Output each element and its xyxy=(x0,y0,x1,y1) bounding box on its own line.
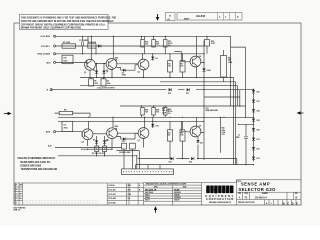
terminal B15 xyxy=(54,61,56,63)
svg-text:SELECTOR G3O: SELECTOR G3O xyxy=(238,187,276,192)
svg-text:680: 680 xyxy=(168,135,171,137)
svg-text:MFD: MFD xyxy=(236,137,240,139)
svg-text:D: D xyxy=(292,201,294,205)
diode D30 xyxy=(252,128,255,131)
svg-text:D6: D6 xyxy=(156,58,158,60)
wire bus 117.3 xyxy=(58,116,254,118)
svg-text:D10: D10 xyxy=(168,93,171,95)
rev table verticals xyxy=(107,183,138,205)
wire bus 106 xyxy=(120,105,246,107)
diode D26 xyxy=(252,90,255,93)
svg-text:TRANSISTORS ARE DEC2894-3B: TRANSISTORS ARE DEC2894-3B xyxy=(21,168,58,171)
wire +10V rail xyxy=(56,35,231,37)
diode D6 xyxy=(151,57,154,60)
conversion chart xyxy=(144,183,202,205)
border frame xyxy=(14,23,301,205)
notes text block xyxy=(18,157,58,171)
svg-text:RESISTORS ARE 1/4W; 5%: RESISTORS ARE 1/4W; 5% xyxy=(21,161,52,164)
svg-text:B15: B15 xyxy=(47,62,52,64)
svg-text:Y: Y xyxy=(169,14,171,18)
svg-text:1N645: 1N645 xyxy=(174,194,180,197)
wire local emitter bus bottom row xyxy=(81,148,112,150)
svg-text:D670: D670 xyxy=(145,200,150,202)
svg-text:D29: D29 xyxy=(257,120,260,122)
pc rev letters xyxy=(283,201,299,205)
svg-text:BRN-GRN-GRN: BRN-GRN-GRN xyxy=(206,110,219,112)
svg-text:D664: D664 xyxy=(207,69,211,72)
transistor Q4 xyxy=(190,56,201,67)
svg-text:DEC: DEC xyxy=(20,184,24,186)
svg-text:R17: R17 xyxy=(180,64,183,66)
svg-text:ECO-444: ECO-444 xyxy=(109,197,116,200)
svg-text:7500: 7500 xyxy=(63,60,67,62)
resistor R4 xyxy=(89,79,94,86)
svg-text:GND LUG(2): GND LUG(2) xyxy=(38,54,51,56)
resistor R10 xyxy=(141,40,145,48)
wire nested rail xyxy=(160,81,236,83)
diode D32 xyxy=(252,147,255,150)
wire Q8 base xyxy=(181,122,190,132)
svg-text:REV: REV xyxy=(295,193,298,195)
svg-text:10-2065 2-2065: 10-2065 2-2065 xyxy=(119,152,130,154)
svg-text:COPYRIGHT 1965 BY DIGITAL EQUI: COPYRIGHT 1965 BY DIGITAL EQUIPMENT CORP… xyxy=(21,23,106,26)
svg-text:D11: D11 xyxy=(186,93,189,95)
svg-text:COLLECTOR OUTPUT: COLLECTOR OUTPUT xyxy=(97,87,116,89)
svg-text:D8: D8 xyxy=(106,140,108,142)
capacitor C1 xyxy=(82,42,84,47)
diode D33 xyxy=(252,157,255,160)
diode D15 xyxy=(123,137,126,140)
transistor Q3 xyxy=(138,59,149,70)
verticals bottom area xyxy=(142,106,166,108)
svg-text:W12: W12 xyxy=(128,185,132,187)
transistor Q2 xyxy=(106,59,117,70)
resistor R8 xyxy=(59,111,72,114)
terminal -15V xyxy=(54,45,56,47)
svg-text:A: A xyxy=(266,202,268,205)
svg-text:R42: R42 xyxy=(222,127,225,130)
svg-text:R9 1500 C9 2200: R9 1500 C9 2200 xyxy=(92,153,105,155)
wire input E row xyxy=(51,89,253,91)
left column dividers xyxy=(16,183,23,205)
diode D29 xyxy=(252,119,255,122)
registration arrow left xyxy=(4,112,12,116)
resistor R11 xyxy=(152,40,156,48)
svg-text:2894: 2894 xyxy=(115,56,119,59)
svg-text:D30: D30 xyxy=(257,130,260,132)
svg-text:Q1: Q1 xyxy=(84,72,86,74)
notes box top-left xyxy=(20,15,117,30)
svg-text:R8: R8 xyxy=(64,110,66,112)
wire B15 input xyxy=(56,61,85,63)
wire verticals top area xyxy=(82,36,84,54)
svg-text:HG-845: HG-845 xyxy=(196,14,206,18)
capacitor C12 xyxy=(244,137,248,139)
wire base interconnect Q6-Q7 xyxy=(118,132,139,134)
svg-text:33: 33 xyxy=(16,198,18,200)
resistor R17 xyxy=(180,61,185,72)
diode D11 xyxy=(187,88,190,91)
wire 164.6 xyxy=(136,164,254,166)
resistor box C50 xyxy=(62,55,73,64)
svg-text:2.2K: 2.2K xyxy=(211,43,215,45)
resistor R44 xyxy=(122,143,127,149)
svg-text:E: E xyxy=(47,90,49,92)
svg-text:D27: D27 xyxy=(257,101,260,103)
svg-text:D6: D6 xyxy=(20,198,22,200)
svg-text:D31: D31 xyxy=(257,139,260,141)
svg-text:NUMBER: NUMBER xyxy=(262,193,268,195)
svg-text:1500: 1500 xyxy=(94,83,98,85)
transistor Q7 xyxy=(138,128,149,139)
svg-text:12: 12 xyxy=(238,135,240,137)
diode D31 xyxy=(252,138,255,141)
svg-text:1N270: 1N270 xyxy=(174,200,180,202)
svg-text:DEC2894-3B: DEC2894-3B xyxy=(145,188,157,191)
svg-text:DRAFT: DRAFT xyxy=(184,17,189,20)
svg-text:SIZE: SIZE xyxy=(238,193,241,195)
svg-text:7500: 7500 xyxy=(64,127,68,129)
svg-text:1: 1 xyxy=(271,203,273,205)
svg-text:SENSE AMP: SENSE AMP xyxy=(241,182,270,187)
digital logo xyxy=(206,186,235,204)
svg-text:B: B xyxy=(283,201,285,205)
diode D27 xyxy=(252,100,255,103)
diode D14 xyxy=(191,157,194,160)
svg-text:-3B: -3B xyxy=(115,60,118,62)
svg-text:2200: 2200 xyxy=(107,83,111,85)
svg-text:D5: D5 xyxy=(122,72,124,74)
resistor R9 xyxy=(95,146,99,152)
svg-text:D2: D2 xyxy=(93,70,95,72)
terminal +10V xyxy=(54,35,56,37)
svg-text:D1 D664: D1 D664 xyxy=(89,41,97,44)
wire second lower rail xyxy=(80,85,238,87)
svg-text:73: 73 xyxy=(245,197,248,199)
svg-text:1N6: 1N6 xyxy=(128,190,131,192)
svg-text:D26: D26 xyxy=(257,92,260,94)
svg-text:B: B xyxy=(296,197,298,199)
svg-text:C8: C8 xyxy=(64,125,66,127)
title text xyxy=(237,181,298,205)
svg-text:CHG: CHG xyxy=(128,194,132,196)
svg-text:g: g xyxy=(214,187,218,194)
connector box with pins xyxy=(122,169,174,175)
wire long bus 155.8 xyxy=(58,155,137,157)
resistor R35 xyxy=(152,108,156,116)
svg-text:MAYNARD. MASSACHUSETTS: MAYNARD. MASSACHUSETTS xyxy=(209,201,231,204)
svg-text:CODE: CODE xyxy=(244,193,248,195)
wire upper rail row2 xyxy=(56,45,204,47)
svg-text:-3B: -3B xyxy=(115,128,118,130)
diode D18 xyxy=(196,140,199,143)
wire bus 121.3 xyxy=(58,120,204,122)
header number box xyxy=(177,13,242,21)
svg-text:750: 750 xyxy=(156,112,159,114)
header locator box xyxy=(166,13,176,22)
rev table text xyxy=(109,184,142,204)
svg-text:DRB 110: DRB 110 xyxy=(14,210,21,212)
title block verticals xyxy=(236,180,238,205)
diode D2 xyxy=(95,71,98,74)
svg-text:Q8: Q8 xyxy=(199,126,201,128)
wire B20 input xyxy=(56,131,82,133)
svg-text:Q4: Q4 xyxy=(199,55,201,58)
wire base interconnect Q5-Q6 xyxy=(93,133,107,135)
svg-text:ECO-412: ECO-412 xyxy=(109,193,116,196)
svg-text:C50: C50 xyxy=(63,58,66,60)
svg-text:R5: R5 xyxy=(107,81,109,83)
svg-text:D7: D7 xyxy=(93,140,95,142)
transistor Q6 xyxy=(107,128,118,139)
resistor R5 xyxy=(101,79,106,86)
transistor Q5 xyxy=(82,129,93,140)
svg-text:DRAWN FOR MAINT. ONLY. EQUIPME: DRAWN FOR MAINT. ONLY. EQUIPMENT COPYRIG… xyxy=(21,26,82,29)
svg-text:-15V B13: -15V B13 xyxy=(41,46,51,48)
svg-text:d: d xyxy=(206,187,210,194)
svg-text:2894: 2894 xyxy=(115,125,119,128)
resistor box C8 xyxy=(62,121,73,131)
diode D8 xyxy=(103,140,106,143)
svg-text:D16: D16 xyxy=(156,125,159,127)
svg-text:750: 750 xyxy=(145,112,148,114)
diode D5 xyxy=(123,69,126,72)
svg-text:CIRCUITS ARE PROPRIETARY IN NA: CIRCUITS ARE PROPRIETARY IN NATURE AND S… xyxy=(21,20,114,23)
svg-text:CRN: CRN xyxy=(222,130,226,132)
parts table top edge xyxy=(14,180,301,183)
svg-text:750: 750 xyxy=(156,44,159,46)
svg-text:47: 47 xyxy=(16,188,18,191)
registration arrow right xyxy=(297,111,304,114)
svg-text:10%: 10% xyxy=(222,134,226,136)
diode D16 xyxy=(151,124,154,127)
svg-text:B: B xyxy=(139,190,141,192)
svg-text:+10V A1B: +10V A1B xyxy=(40,35,50,38)
svg-text:D12: D12 xyxy=(200,142,203,144)
svg-text:750: 750 xyxy=(145,44,148,46)
svg-text:D14: D14 xyxy=(189,161,192,164)
svg-text:CORPORATION: CORPORATION xyxy=(206,197,234,201)
wire y97 xyxy=(204,96,240,98)
resistor R47 xyxy=(180,130,185,141)
resistor R36 xyxy=(164,108,168,116)
svg-text:A15: A15 xyxy=(48,145,53,148)
diode D28 xyxy=(252,109,255,112)
svg-text:D32: D32 xyxy=(257,149,260,151)
svg-text:l: l xyxy=(231,187,233,194)
resistor R12 xyxy=(164,40,168,48)
svg-text:A: A xyxy=(239,196,241,199)
svg-text:D33: D33 xyxy=(257,158,260,160)
dotted part rows xyxy=(23,201,99,203)
resistor R1 xyxy=(62,44,76,48)
svg-text:R27: R27 xyxy=(168,133,171,135)
wire Q6 to D15 xyxy=(117,133,139,139)
svg-text:Q7: Q7 xyxy=(138,140,140,142)
wire base interconnect Q2-Q3 xyxy=(117,63,138,65)
svg-text:TRANSISTOR & DIODE CONVERSION: TRANSISTOR & DIODE CONVERSION CHART xyxy=(146,183,188,186)
svg-text:1/2W: 1/2W xyxy=(162,112,166,114)
resistor R22 xyxy=(205,40,210,47)
svg-text:1/2W: 1/2W xyxy=(228,62,232,64)
conversion chart text xyxy=(145,183,187,202)
resistor R42 xyxy=(219,117,221,153)
svg-text:R1 1500: R1 1500 xyxy=(63,42,70,44)
wire base interconnect Q1-Q2 xyxy=(96,63,107,65)
wire Q2 to D5 xyxy=(117,65,139,70)
resistor R27 xyxy=(168,130,173,141)
svg-text:3%: 3% xyxy=(168,45,171,47)
resistor C9 xyxy=(103,146,107,152)
svg-text:8: 8 xyxy=(16,184,17,186)
svg-text:E: E xyxy=(296,201,298,205)
svg-text:MF: MF xyxy=(20,193,22,195)
wire emitter rail top row xyxy=(80,77,234,79)
terminal GND xyxy=(54,53,56,55)
svg-text:1/2W: 1/2W xyxy=(222,132,226,134)
wire A15 row xyxy=(55,147,122,149)
svg-text:R16: R16 xyxy=(168,64,171,66)
diode D10 xyxy=(169,88,172,91)
svg-text:2: 2 xyxy=(16,202,17,204)
transistor Q1 xyxy=(85,59,96,70)
svg-text:3%: 3% xyxy=(168,113,171,115)
svg-text:12: 12 xyxy=(16,193,18,195)
svg-text:i: i xyxy=(219,187,221,194)
svg-text:8-23-65: 8-23-65 xyxy=(109,185,115,187)
svg-text:D15: D15 xyxy=(122,141,125,143)
svg-text:A: A xyxy=(237,15,239,18)
svg-text:1.8K: 1.8K xyxy=(180,135,184,137)
svg-text:1: 1 xyxy=(225,16,227,18)
registration arrow top xyxy=(156,14,159,21)
diode D7 xyxy=(95,140,98,143)
svg-text:D3: D3 xyxy=(106,70,108,72)
svg-text:R4: R4 xyxy=(94,80,96,83)
resistor R16 xyxy=(168,61,173,72)
transistor Q8 xyxy=(190,126,201,137)
svg-text:UNLESS OTHERWISE INDICATED:: UNLESS OTHERWISE INDICATED: xyxy=(18,157,56,160)
terminal B20 xyxy=(54,131,56,133)
terminal E input xyxy=(50,89,52,91)
svg-text:PRINTED CIRCUIT REV.: PRINTED CIRCUIT REV. xyxy=(238,202,255,204)
diode D1 xyxy=(88,44,96,48)
svg-text:ECO-465: ECO-465 xyxy=(109,202,116,205)
diode D9 xyxy=(202,68,205,71)
wire gnd rail xyxy=(56,53,204,55)
wire bracket 159.6 xyxy=(138,159,237,165)
svg-text:C: C xyxy=(287,201,289,205)
svg-text:i: i xyxy=(211,187,213,194)
resistor R34 xyxy=(141,108,145,116)
svg-text:a: a xyxy=(226,187,230,194)
svg-text:2-6: 2-6 xyxy=(128,198,131,200)
svg-text:1D-000-0-4: 1D-000-0-4 xyxy=(255,196,267,199)
parts column text xyxy=(14,184,23,204)
svg-text:A: A xyxy=(139,184,141,187)
svg-text:2: 2 xyxy=(219,16,221,18)
wire under boxes xyxy=(117,150,140,152)
svg-text:DIODES ARE D662: DIODES ARE D662 xyxy=(21,164,42,167)
resistor R23 xyxy=(221,56,227,78)
svg-text:D28: D28 xyxy=(257,111,260,113)
resistor R45 xyxy=(130,143,136,149)
registration arrow bottom xyxy=(154,206,157,213)
svg-text:ECO-360: ECO-360 xyxy=(109,190,116,192)
svg-text:CC: CC xyxy=(20,189,23,191)
svg-text:B20: B20 xyxy=(46,132,51,134)
diode D3 xyxy=(102,71,105,74)
svg-text:D13: D13 xyxy=(169,162,172,164)
svg-text:Q5: Q5 xyxy=(82,141,84,143)
svg-text:Q3: Q3 xyxy=(138,72,140,74)
diode D13 xyxy=(171,157,174,160)
svg-text:THIS SCHEMATIC IS FURNISHED ON: THIS SCHEMATIC IS FURNISHED ONLY FOR TES… xyxy=(21,17,117,20)
diode chain D26-D33 xyxy=(252,90,260,160)
